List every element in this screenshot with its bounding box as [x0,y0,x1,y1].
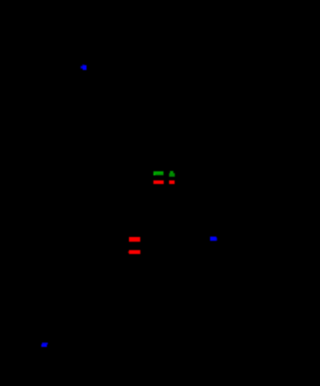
atom highlight green (house shape, right of pair) [169,171,175,177]
bond highlight red bar B2 (right) [169,180,175,184]
bond highlight red bar C1 (upper) [129,237,140,242]
bond highlight red bar C2 (lower) [128,250,140,254]
bond highlight red bar B1 (left) [153,180,163,184]
atom label N3 (blue, bottom left) [41,343,48,347]
atom label N2 (blue, mid right) [210,237,217,241]
atom label N1 (blue, upper left) [81,65,87,71]
bond highlight green bar (left of pair) [153,171,163,175]
